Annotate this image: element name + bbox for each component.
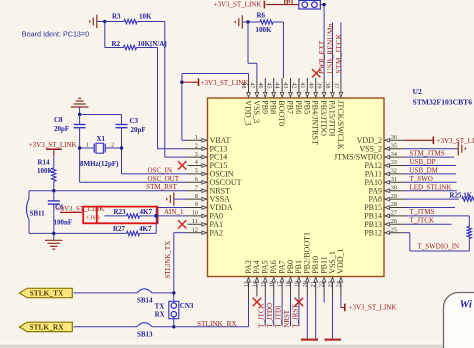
- svg-text:LED_STLINK: LED_STLINK: [410, 183, 452, 191]
- crystal X1: [80, 135, 122, 168]
- node K junction: [172, 325, 175, 328]
- port STLK_TX: [20, 288, 73, 297]
- svg-text:+3V3_ST_LINK: +3V3_ST_LINK: [29, 141, 77, 149]
- svg-text:VDD_1: VDD_1: [336, 248, 345, 273]
- wire R2 to PC13: [158, 48, 188, 149]
- U2 left pin 10 PA0: [188, 210, 224, 221]
- svg-text:42: 42: [291, 82, 298, 88]
- svg-text:8: 8: [195, 193, 198, 200]
- wire VSS_1 to gnd: [332, 297, 334, 339]
- svg-text:13: 13: [243, 281, 250, 287]
- svg-text:37: 37: [333, 82, 340, 88]
- svg-text:6: 6: [195, 176, 198, 183]
- svg-text:31: 31: [391, 176, 397, 183]
- net label T_JRST: [291, 304, 299, 328]
- wire NRST: [290, 297, 292, 327]
- U2 left pin 12 PA2: [188, 226, 224, 237]
- net label LED_STLINK: [410, 183, 452, 191]
- svg-text:35: 35: [391, 142, 397, 149]
- no-connect X PC15: [178, 161, 186, 169]
- U2 top pin 40 PB4/JNTRST: [307, 78, 319, 145]
- wire GND to VSS_3: [248, 22, 257, 78]
- U2 left pin 2 PC13: [188, 142, 228, 153]
- wire T_JTDI: [281, 297, 283, 327]
- U2 left pin 8 VSSA: [188, 193, 231, 204]
- wire T_JTCK: [264, 297, 266, 327]
- U2 bottom pin 24 VDD_1: [335, 248, 345, 296]
- U2 right pin 25 PB12: [364, 226, 404, 237]
- svg-text:8MHz(12pF): 8MHz(12pF): [80, 160, 119, 168]
- svg-text:14: 14: [251, 281, 258, 287]
- wire SB11 bottom: [29, 232, 54, 234]
- node A junction: [103, 20, 106, 23]
- svg-text:PB9: PB9: [260, 100, 269, 114]
- svg-text:R23: R23: [114, 208, 127, 216]
- svg-text:USB_DP: USB_DP: [410, 158, 436, 166]
- svg-text:STM_RST: STM_RST: [146, 183, 177, 191]
- svg-text:R3: R3: [112, 12, 121, 20]
- wire PB10 to gnd: [315, 297, 317, 339]
- U2 top pin 38 PA15/JTDI: [324, 78, 336, 137]
- net label T_JTDI: [275, 305, 283, 328]
- U2 right pin 33 PA12: [365, 159, 405, 170]
- svg-text:36: 36: [391, 134, 397, 141]
- sheet symbol corner: [444, 293, 474, 348]
- svg-text:47: 47: [249, 82, 256, 88]
- U2 value STM32F103CBT6: [413, 97, 473, 106]
- svg-text:STM_JTMS: STM_JTMS: [410, 150, 445, 158]
- U2 right pin 28 PB15: [364, 201, 404, 212]
- U2 bottom pin 14 PA4: [251, 260, 261, 296]
- svg-text:RX: RX: [155, 311, 165, 319]
- svg-text:22: 22: [319, 281, 326, 287]
- svg-text:JTCK/SWCLK: JTCK/SWCLK: [336, 100, 345, 150]
- svg-text:44: 44: [274, 82, 281, 88]
- wire OSC_OUT: [80, 181, 188, 183]
- net label +3V3_ST_LINK P4: [57, 205, 105, 213]
- ground G2 (left of R6): [235, 15, 248, 28]
- U2 top pin 45 PB8: [265, 78, 277, 114]
- svg-text:U2: U2: [413, 87, 422, 96]
- wire PA8: [404, 198, 459, 200]
- svg-text:2: 2: [111, 143, 114, 149]
- node I junction: [154, 214, 158, 218]
- U2 top pin 48 VDD_3: [240, 78, 252, 126]
- svg-text:R6: R6: [257, 12, 266, 20]
- wire C3 down: [121, 128, 123, 174]
- net label T_SWO: [410, 175, 433, 183]
- svg-text:AIN_1: AIN_1: [164, 208, 184, 216]
- solder bridge SB14: [137, 289, 153, 305]
- svg-text:USB_RENUMn: USB_RENUMn: [326, 23, 334, 73]
- wire AIN to R27: [155, 216, 157, 234]
- net label STM_JTCK: [335, 33, 343, 73]
- wire T_JTDO: [273, 297, 275, 327]
- svg-text:C8: C8: [54, 116, 63, 124]
- U2 right pin 30 PA9: [369, 184, 405, 195]
- svg-text:15: 15: [260, 281, 267, 287]
- svg-text:38: 38: [324, 82, 331, 88]
- svg-text:3: 3: [195, 151, 198, 158]
- svg-text:4K7: 4K7: [140, 208, 153, 216]
- wire R6 row: [248, 21, 283, 23]
- svg-text:T_JTCK: T_JTCK: [410, 216, 435, 224]
- svg-text:T_JTMS: T_JTMS: [410, 208, 435, 216]
- svg-text:100K: 100K: [37, 167, 54, 175]
- svg-text:34: 34: [391, 151, 397, 158]
- svg-text:43: 43: [282, 82, 289, 88]
- wire T_JTMS: [404, 216, 469, 227]
- wire C8 down: [79, 128, 81, 183]
- wire R23 left: [105, 215, 127, 217]
- U2 bottom pin 23 VSS_1: [327, 251, 337, 296]
- svg-text:39: 39: [316, 82, 323, 88]
- svg-text:21: 21: [310, 281, 317, 287]
- resistor R14: [37, 156, 56, 191]
- window bottom edge: [0, 343, 474, 348]
- svg-text:T_SWDIO_IN: T_SWDIO_IN: [418, 243, 460, 251]
- svg-text:T_JTCK: T_JTCK: [258, 303, 266, 328]
- wire STLK_RX: [74, 297, 249, 327]
- connector CN3: [155, 301, 194, 318]
- wire R3 row: [105, 21, 165, 23]
- svg-text:4K7: 4K7: [139, 225, 152, 233]
- U2 bottom pin 17 PA7: [277, 260, 287, 296]
- resistor R27: [113, 225, 152, 235]
- U2 left pin 3 PC14: [188, 151, 228, 162]
- net label T_JTMS: [410, 208, 435, 216]
- wire VDD_1: [341, 297, 344, 308]
- no-connect X PB4: [312, 69, 320, 77]
- U2 bottom pin 13 PA3: [243, 260, 253, 296]
- port STLK_RX: [20, 322, 73, 331]
- svg-text:+3V3_ST_LINK: +3V3_ST_LINK: [349, 304, 397, 312]
- U2 left pin 9 VDDA: [188, 201, 233, 212]
- wire PB15: [404, 207, 455, 209]
- svg-text:R14: R14: [38, 159, 51, 167]
- wire R2 branch: [105, 22, 158, 48]
- svg-text:20pF: 20pF: [131, 126, 146, 134]
- ground G3 (osc): [71, 98, 89, 114]
- svg-text:STLK_RX: STLK_RX: [29, 323, 64, 332]
- U2 bottom pin 21 PB10: [310, 256, 320, 296]
- resistor R6: [256, 12, 274, 34]
- svg-text:26: 26: [391, 218, 397, 225]
- svg-text:PB12: PB12: [364, 228, 382, 237]
- MCU U2 STM32F103CBT6 body: [208, 98, 385, 277]
- svg-text:+3V3: +3V3: [86, 214, 100, 221]
- node F junction: [120, 146, 123, 149]
- ground G5 (VSSA): [167, 192, 188, 205]
- net label USB_DP: [410, 158, 436, 166]
- svg-text:100K: 100K: [256, 26, 273, 34]
- svg-text:9: 9: [195, 201, 198, 208]
- resistor R3: [112, 12, 152, 23]
- svg-text:40: 40: [307, 82, 314, 88]
- wire osc gnd rail: [80, 114, 122, 116]
- svg-text:USB_DM: USB_DM: [410, 167, 439, 175]
- wire STM_JTMS: [404, 156, 454, 158]
- capacitor C8: [54, 115, 86, 133]
- svg-text:25: 25: [391, 226, 397, 233]
- wire CN3 RX down: [173, 317, 175, 327]
- svg-text:PB7: PB7: [286, 100, 295, 114]
- U2 top pin 47 VSS_3: [249, 78, 261, 123]
- wire +3V3 rail: [182, 74, 249, 141]
- power +3V3_ST_LINK P1: [180, 78, 248, 87]
- svg-text:20: 20: [302, 281, 309, 287]
- resistor R25: [450, 192, 474, 202]
- net label PWR_EXT: [318, 40, 326, 75]
- svg-text:32: 32: [391, 168, 397, 175]
- U2 left pin 5 OSCIN: [188, 168, 234, 179]
- svg-text:T_JRST: T_JRST: [291, 304, 299, 328]
- wire STM_JTCK: [340, 23, 342, 79]
- U2 right pin 29 PA8: [369, 193, 405, 204]
- svg-text:16: 16: [268, 281, 275, 287]
- U2 bottom pin 22 PB11: [319, 256, 329, 296]
- U2 bottom pin 19 PB1: [293, 260, 303, 296]
- svg-text:PB8: PB8: [269, 100, 278, 114]
- svg-text:R25 1K: R25 1K: [450, 192, 473, 200]
- wire VSS_2: [404, 148, 458, 150]
- ground G7: [325, 339, 342, 341]
- power +3V3_ST_LINK P2: [214, 0, 265, 8]
- net label USB_RENUMn: [326, 23, 334, 73]
- node J junction: [172, 291, 175, 294]
- U2 left pin 7 NRST: [188, 184, 231, 195]
- no-connect X PB1: [295, 298, 303, 306]
- power +3V3_ST_LINK P6: [433, 137, 474, 146]
- svg-text:11: 11: [192, 218, 198, 225]
- svg-text:10: 10: [192, 210, 198, 217]
- U2 top pin 44 BOOT0: [274, 78, 286, 126]
- svg-text:12: 12: [192, 226, 198, 233]
- wire PB12: [404, 233, 469, 251]
- svg-text:JP1: JP1: [283, 0, 295, 7]
- U2 top pin 37 JTCK/SWCLK: [333, 78, 345, 150]
- svg-text:+3V3_ST_LINK: +3V3_ST_LINK: [214, 0, 262, 8]
- net label OSC_OUT: [148, 175, 180, 183]
- wire R36 down: [468, 239, 470, 252]
- svg-text:5: 5: [195, 168, 198, 175]
- net label AIN_1: [164, 208, 184, 216]
- U2 bottom pin 15 PA5: [260, 260, 270, 296]
- wire STLK_TX: [74, 292, 174, 294]
- net label NRST: [283, 309, 291, 328]
- svg-text:23: 23: [327, 281, 334, 287]
- svg-text:STLK_TX: STLK_TX: [30, 289, 64, 298]
- wire R6 to BOOT0: [282, 22, 284, 78]
- net label T_JTCK: [410, 216, 435, 224]
- wire T_JRST: [298, 297, 300, 327]
- svg-text:1: 1: [195, 134, 198, 141]
- svg-text:CN3: CN3: [180, 302, 194, 310]
- node E junction: [78, 146, 81, 149]
- svg-text:45: 45: [265, 82, 272, 88]
- wire JP1 to PB3: [320, 5, 324, 78]
- wire PB11 stub: [323, 297, 325, 303]
- U2 bottom pin 20 PB2/BOOT1: [302, 232, 312, 296]
- U2 left pin 6 OSCOUT: [188, 176, 242, 187]
- net label T_SWDIO_IN: [418, 243, 460, 251]
- highlight box: [83, 207, 157, 224]
- power +3V3_ST_LINK P3: [29, 141, 77, 156]
- U2 top pin 42 PB6: [291, 78, 303, 114]
- ground G6: [301, 339, 318, 341]
- svg-text:TX: TX: [155, 303, 165, 311]
- svg-text:VSS_3: VSS_3: [252, 100, 261, 123]
- svg-text:29: 29: [391, 193, 397, 200]
- wire USB_DP: [404, 165, 456, 167]
- svg-text:STM_JTCK: STM_JTCK: [335, 33, 343, 73]
- U2 right pin 35 VSS_2: [359, 142, 404, 153]
- node C junction: [322, 3, 325, 6]
- svg-text:T_SWO: T_SWO: [410, 175, 433, 183]
- svg-text:7: 7: [195, 184, 198, 191]
- U2 left pin 11 PA1: [188, 218, 224, 229]
- no-connect X PA4: [253, 298, 261, 306]
- svg-text:2: 2: [195, 142, 198, 149]
- node H junction: [52, 232, 55, 235]
- svg-text:PB6: PB6: [294, 100, 303, 114]
- wire T_SWO: [404, 181, 457, 183]
- svg-text:T_JTDO: T_JTDO: [266, 303, 274, 328]
- svg-text:R27: R27: [113, 225, 126, 233]
- resistor R36: [467, 227, 471, 239]
- svg-text:STM32F103CBT6: STM32F103CBT6: [413, 97, 473, 106]
- ground G4 (below C6): [45, 233, 63, 249]
- svg-text:10K: 10K: [139, 12, 152, 20]
- svg-text:STLINK_TX: STLINK_TX: [164, 241, 172, 279]
- net label STM_JTMS: [410, 150, 445, 158]
- U2 top pin 46 PB9: [257, 78, 269, 114]
- svg-text:R2: R2: [112, 40, 121, 48]
- svg-text:Board Ident: PC13=0: Board Ident: PC13=0: [22, 29, 89, 38]
- solder bridge SB11: [27, 191, 46, 234]
- wire to JP1: [266, 4, 299, 6]
- U2 right pin 36 VDD_2: [357, 134, 404, 145]
- svg-text:27: 27: [391, 210, 397, 217]
- U2 top pin 39 PB3/JTDO: [316, 78, 328, 136]
- svg-text:PB5: PB5: [302, 100, 311, 114]
- svg-text:SB13: SB13: [137, 331, 153, 339]
- wire VDD_2: [404, 139, 433, 141]
- svg-text:PB4/JNTRST: PB4/JNTRST: [311, 100, 320, 145]
- svg-text:+3V3_ST_LINK: +3V3_ST_LINK: [437, 137, 474, 145]
- wire R27 right: [140, 232, 157, 234]
- svg-text:VDD_3: VDD_3: [244, 100, 253, 125]
- resistor R2: [112, 40, 167, 50]
- net label T_JTDO: [266, 303, 274, 328]
- capacitor C6: [48, 191, 72, 234]
- wire USB_RENUMn: [332, 23, 334, 79]
- svg-text:X1: X1: [97, 135, 106, 143]
- net label STLINK_TX: [164, 241, 172, 279]
- net label +3V3: [86, 214, 100, 221]
- wire PB2 to gnd: [306, 297, 308, 339]
- svg-text:24: 24: [335, 281, 342, 287]
- net label OSC_IN: [148, 167, 173, 175]
- svg-text:46: 46: [257, 82, 264, 88]
- U2 right pin 32 PA11: [365, 168, 404, 179]
- capacitor C3: [116, 115, 146, 134]
- U2 left pin 1 VBAT: [188, 134, 231, 145]
- U2 bottom pin 18 PB0: [285, 260, 295, 296]
- wire T_JTCK: [404, 223, 452, 225]
- svg-text:PB3/JTDO: PB3/JTDO: [319, 100, 328, 136]
- jumper JP1: [283, 0, 321, 9]
- node D junction: [78, 113, 81, 116]
- svg-text:28: 28: [391, 201, 397, 208]
- svg-text:C3: C3: [130, 117, 139, 125]
- svg-text:SB14: SB14: [137, 297, 153, 305]
- svg-text:+3V3_ST_LINK: +3V3_ST_LINK: [201, 79, 249, 87]
- net label T_JTCK: [258, 303, 266, 328]
- svg-text:SB11: SB11: [30, 209, 46, 217]
- net label USB_DM: [410, 167, 439, 175]
- wire R27 row: [54, 232, 127, 234]
- net label STLINK_RX: [197, 319, 237, 328]
- wire AIN_1 to PA0: [156, 215, 187, 217]
- U2 bottom pin 16 PA6: [268, 260, 278, 296]
- wire USB_DM: [404, 173, 456, 175]
- svg-text:100nF: 100nF: [54, 218, 73, 226]
- U2 top pin 41 PB5: [299, 78, 311, 114]
- U2 top pin 43 PB7: [282, 78, 294, 114]
- svg-text:10K[N/A]: 10K[N/A]: [138, 40, 167, 48]
- svg-text:PA2: PA2: [210, 228, 224, 237]
- svg-text:18: 18: [285, 281, 292, 287]
- wire LED_STLINK: [404, 190, 457, 192]
- U2 designator: [413, 87, 422, 96]
- Board Ident note: [22, 29, 89, 38]
- net label STM_RST: [146, 183, 177, 191]
- svg-text:STLINK_RX: STLINK_RX: [197, 319, 237, 328]
- svg-text:4: 4: [195, 159, 198, 166]
- wire OSC_IN: [122, 173, 188, 175]
- wire R3 to PC14: [165, 22, 188, 158]
- solder bridge SB13: [137, 323, 153, 339]
- U2 right pin 27 PB14: [364, 210, 404, 221]
- svg-text:41: 41: [299, 82, 306, 88]
- svg-text:NRST: NRST: [283, 309, 291, 328]
- node B junction: [246, 20, 249, 23]
- wire NRST row: [29, 190, 188, 192]
- svg-text:33: 33: [391, 159, 397, 166]
- node G junction: [52, 189, 55, 192]
- power +3V3_ST_LINK P5: [345, 304, 397, 312]
- ground G8 (VSS_2): [458, 142, 465, 155]
- wire PA2: [174, 233, 188, 304]
- U2 right pin 31 PA10: [365, 176, 405, 187]
- svg-text:17: 17: [277, 281, 284, 287]
- no-connect X PA1: [178, 220, 186, 228]
- svg-text:PA15/JTDI: PA15/JTDI: [328, 100, 337, 136]
- svg-text:20pF: 20pF: [54, 125, 69, 133]
- svg-text:19: 19: [293, 281, 300, 287]
- U2 right pin 34 JTMS/SWDIO: [334, 151, 404, 162]
- wire R23 right: [140, 215, 157, 217]
- svg-text:Wi: Wi: [460, 299, 473, 311]
- svg-text:30: 30: [391, 184, 397, 191]
- wire VDDA down: [156, 208, 187, 216]
- svg-text:T_JTDI: T_JTDI: [275, 305, 283, 328]
- U2 right pin 26 PB13: [364, 218, 404, 229]
- U2 left pin 4 PC15: [188, 159, 228, 170]
- svg-text:1: 1: [86, 143, 89, 149]
- svg-text:BOOT0: BOOT0: [277, 100, 286, 126]
